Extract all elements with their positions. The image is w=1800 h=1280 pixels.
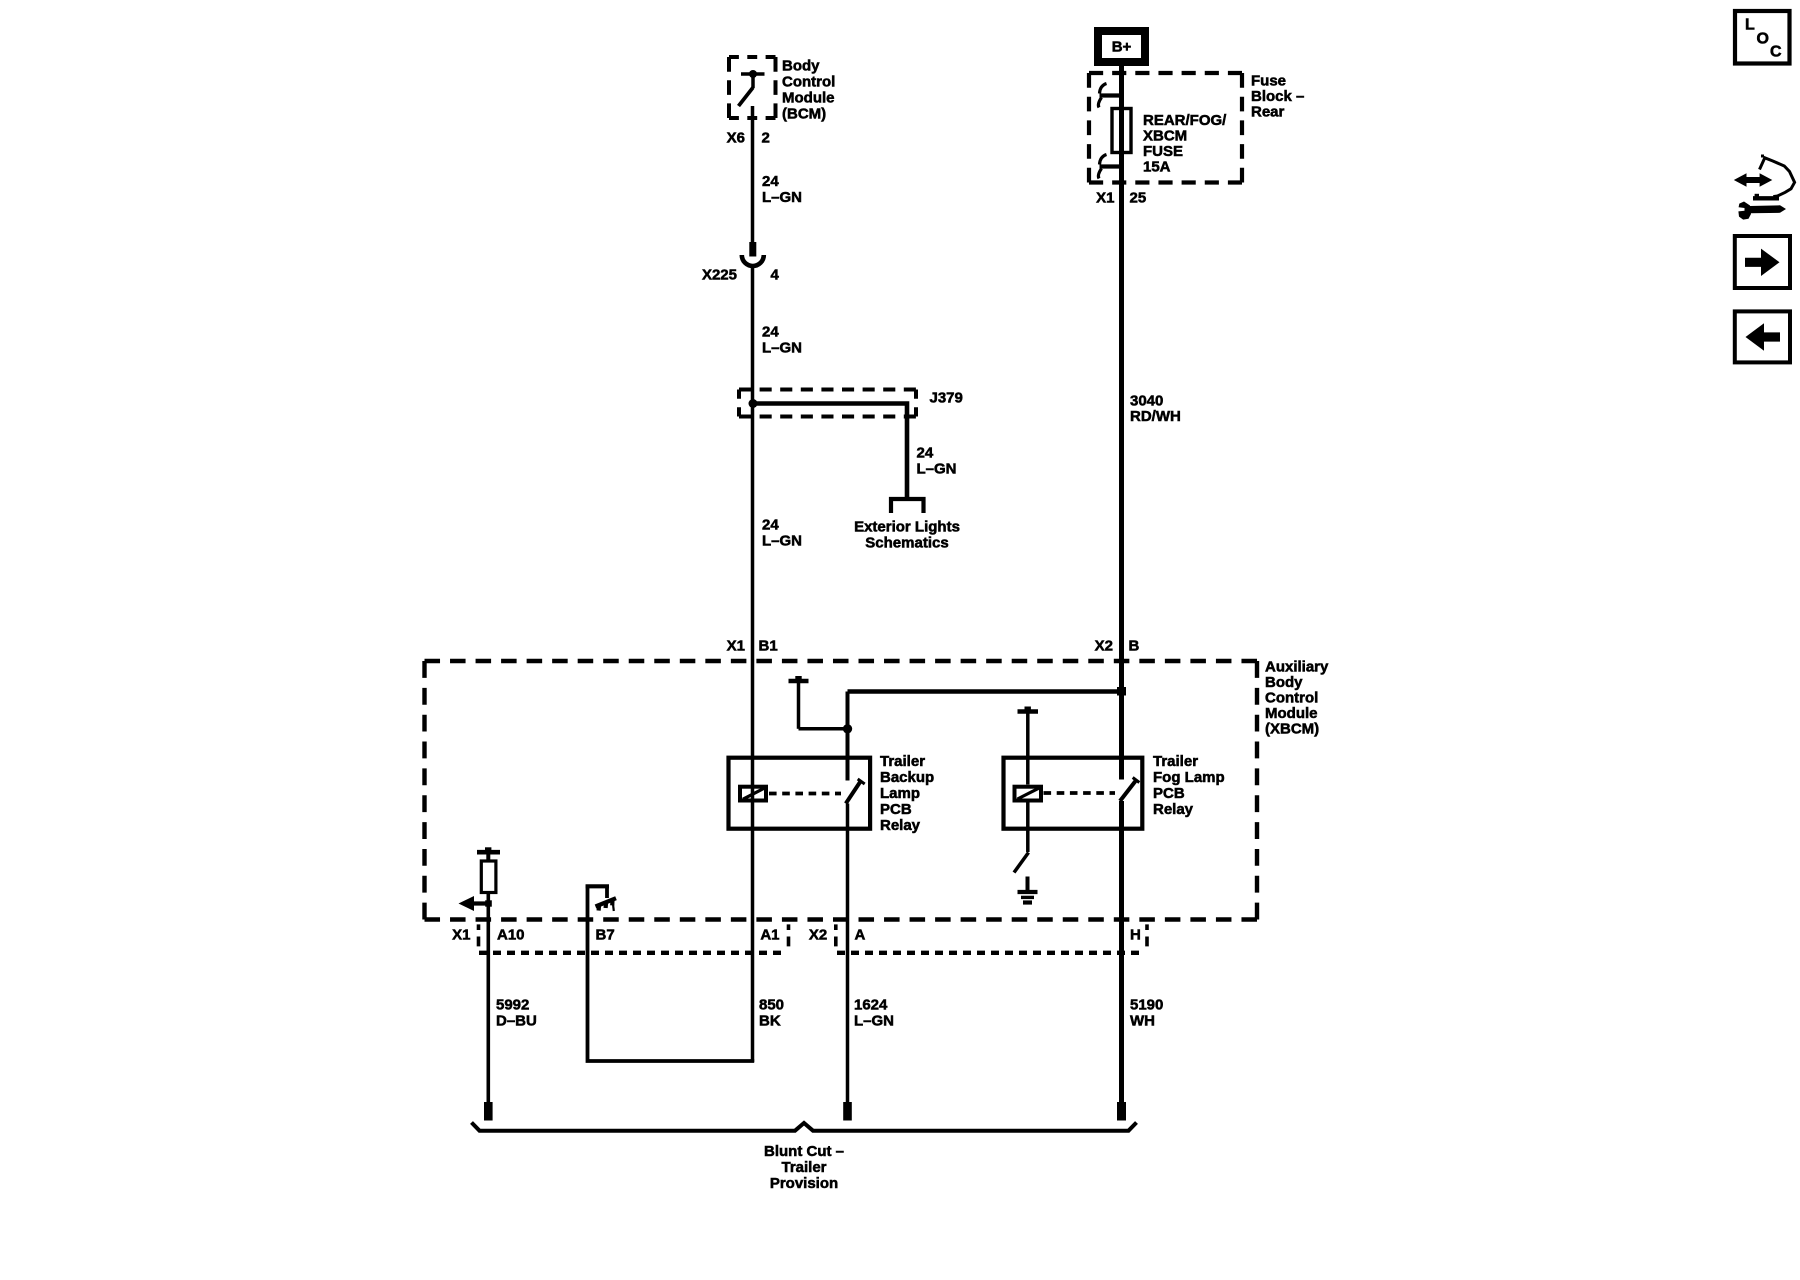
pin labels X1 B1 at XBCM top [727,638,778,655]
svg-text:L: L [1745,17,1755,34]
svg-text:Trailer: Trailer [880,753,925,770]
output element (resistor-style) [481,861,496,893]
Auxiliary Body Control Module (XBCM) dashed box [425,661,1258,920]
svg-text:X1: X1 [727,638,745,655]
svg-text:A: A [855,927,866,944]
wire label 3040 RD/WH [1130,393,1181,426]
svg-text:(BCM): (BCM) [782,106,826,123]
svg-text:REAR/FOG/: REAR/FOG/ [1143,112,1227,129]
svg-text:24: 24 [762,324,779,341]
off-page arrow (continues left) [459,896,489,911]
forward arrow box [1735,236,1790,288]
svg-text:B1: B1 [759,638,778,655]
svg-text:L–GN: L–GN [854,1013,894,1030]
blunt cut end A10 wire [484,1102,493,1121]
branch wire label 24 L-GN [917,445,957,478]
svg-text:Control: Control [1265,690,1318,707]
main feed wire lower segment (relay 2 output to H) [1119,801,1124,1102]
connector row fine dotted line (X1 section) [479,951,787,955]
fuse terminal (top) [1098,84,1121,108]
wire from element down to X1-A10 [486,893,490,1103]
off-page label [854,519,960,552]
Body Control Module (BCM) dashed box [729,57,776,118]
svg-text:B+: B+ [1112,39,1132,56]
blunt cut end H wire [1117,1102,1126,1121]
svg-text:BK: BK [759,1013,781,1030]
relay 2 coil-contact dashed link [1044,791,1116,795]
vertical branch down to relay 1 switch [846,692,850,781]
junction dot at feed corner [1117,687,1126,696]
Trailer Fog Lamp PCB Relay box [1004,758,1143,829]
connector label X225 4 [702,267,780,284]
splice J379 dashed box [739,390,916,417]
Trailer Backup Lamp PCB Relay box [729,758,871,829]
relay 1 coil-contact dashed link [769,792,841,796]
svg-text:L–GN: L–GN [762,189,802,206]
interactive icon: outline shape [1753,155,1795,199]
svg-text:X2: X2 [1095,638,1113,655]
svg-text:(XBCM): (XBCM) [1265,721,1319,738]
forward arrow [1745,249,1780,276]
svg-text:1624: 1624 [854,997,888,1014]
svg-text:Exterior Lights: Exterior Lights [854,519,960,536]
svg-text:25: 25 [1130,190,1147,207]
junction dot on relay 1 feed [843,724,852,733]
svg-text:X1: X1 [452,927,470,944]
Fuse Block - Rear dashed box [1089,73,1242,183]
svg-text:Fog Lamp: Fog Lamp [1153,769,1225,786]
svg-text:X1: X1 [1096,190,1114,207]
wire label 24 L-GN (mid) [762,324,802,357]
svg-text:Blunt Cut –: Blunt Cut – [764,1143,844,1160]
svg-text:RD/WH: RD/WH [1130,408,1181,425]
wire label 850 BK [759,997,784,1030]
row separator after X2 [834,924,838,946]
svg-text:850: 850 [759,997,784,1014]
svg-text:Lamp: Lamp [880,785,920,802]
svg-text:5992: 5992 [496,997,529,1014]
wire from X225 down to XBCM (passes through J379) [751,266,755,661]
off-page connector to Exterior Lights Schematics [891,499,924,513]
svg-text:Body: Body [1265,674,1303,691]
pin label X1 25 [1096,190,1146,207]
svg-text:15A: 15A [1143,159,1171,176]
LOC legend box [1735,11,1790,64]
in-line connector X225 [742,242,764,266]
brace label [764,1143,844,1192]
back arrow box [1735,311,1790,362]
coil ground switch contact [1014,853,1029,873]
svg-text:24: 24 [762,173,779,190]
svg-text:PCB: PCB [1153,785,1185,802]
ground symbol [1018,877,1038,903]
relay 1 name [880,753,934,834]
svg-text:Relay: Relay [880,817,921,834]
wire label 5190 WH [1130,997,1163,1030]
fuse terminal (bottom) [1098,155,1121,179]
svg-text:Trailer: Trailer [1153,753,1198,770]
svg-text:3040: 3040 [1130,393,1163,410]
svg-text:Relay: Relay [1153,801,1194,818]
svg-text:Block –: Block – [1251,88,1304,105]
svg-text:J379: J379 [930,390,963,407]
B+ tap terminal above relay 2 coil [1018,707,1039,785]
chassis ground wire from B7 [586,885,755,1062]
relay 1 coil [740,787,766,801]
svg-text:Fuse: Fuse [1251,73,1286,90]
splice junction dot [749,399,758,408]
blunt cut brace [472,1123,1137,1131]
svg-text:24: 24 [917,445,934,462]
svg-text:Rear: Rear [1251,104,1285,121]
row pin labels [452,927,1141,944]
LOC letters [1745,17,1782,61]
wire from BCM output through relay1 coil down to A1 jumper [751,661,755,1062]
svg-text:A1: A1 [760,927,779,944]
svg-text:FUSE: FUSE [1143,143,1183,160]
svg-text:X2: X2 [809,927,827,944]
wire label 24 L-GN (lower) [762,517,802,550]
wire label 5992 D-BU [496,997,537,1030]
relay 2 name [1153,753,1225,818]
wire label 24 L-GN (upper) [762,173,802,206]
svg-text:PCB: PCB [880,801,912,818]
svg-text:O: O [1757,31,1769,48]
chassis ground claw marks [596,898,617,911]
row separator after X1 [477,924,481,946]
svg-text:B: B [1129,638,1140,655]
svg-text:Body: Body [782,58,820,75]
REAR/FOG/XBCM fuse 15A [1112,109,1131,153]
svg-text:Module: Module [782,90,835,107]
svg-text:Module: Module [1265,705,1318,722]
svg-text:Provision: Provision [770,1175,838,1192]
svg-text:XBCM: XBCM [1143,128,1187,145]
svg-text:C: C [1770,44,1782,61]
svg-text:Control: Control [782,74,835,91]
BCM internal switch driver [739,70,765,106]
B+ tap terminal above relay 1 [789,676,848,729]
svg-text:X225: X225 [702,267,737,284]
svg-text:5190: 5190 [1130,997,1163,1014]
B+ tap terminal above backup lamp output element [477,847,500,861]
svg-text:WH: WH [1130,1013,1155,1030]
svg-text:Backup: Backup [880,769,934,786]
svg-text:2: 2 [762,130,770,147]
relay 2 coil ground leg [1026,802,1030,852]
junction square on A10 wire [485,900,492,906]
relay 2 switch contact [1120,778,1139,802]
svg-text:L–GN: L–GN [762,533,802,550]
B+ power box [1098,31,1145,62]
svg-text:4: 4 [771,267,780,284]
row separator after H [1145,924,1149,946]
main feed wire from B+ through fuse block (upper segment) [1119,66,1124,780]
connector row fine dotted line (X2 section) [837,951,1144,955]
relay 2 coil [1015,787,1042,801]
svg-text:L–GN: L–GN [917,461,957,478]
relay 1 switch contact [846,779,865,804]
BCM label text [782,58,835,123]
svg-text:X6: X6 [727,130,745,147]
relay 1 output wire (to A1... continues as trailer backup feed) [846,804,850,1103]
pin labels X2 B at XBCM top [1095,638,1140,655]
svg-text:24: 24 [762,517,779,534]
XBCM name text [1265,659,1329,738]
svg-text:Trailer: Trailer [781,1159,826,1176]
wire label 1624 L-GN [854,997,894,1030]
fuse block name [1251,73,1304,121]
svg-text:H: H [1130,927,1141,944]
blunt cut end A wire [843,1102,852,1121]
svg-text:Auxiliary: Auxiliary [1265,659,1329,676]
wire from BCM pin 2 down to X225 [751,106,755,242]
B+ text [1112,39,1132,56]
branch wire from J379 to exterior lights [753,404,907,498]
row separator after A1 [787,924,791,946]
interactive icon: wrench [1738,202,1786,220]
J379 label [930,390,963,407]
thick feed branch wire inside XBCM [848,689,1122,693]
svg-text:L–GN: L–GN [762,340,802,357]
svg-text:A10: A10 [497,927,525,944]
svg-text:B7: B7 [596,927,615,944]
back arrow [1746,323,1781,350]
svg-text:D–BU: D–BU [496,1013,537,1030]
svg-text:Schematics: Schematics [865,535,948,552]
interactive icon: double arrow [1734,173,1773,186]
fuse value label [1143,112,1227,176]
pin label X6 2 [727,130,770,147]
